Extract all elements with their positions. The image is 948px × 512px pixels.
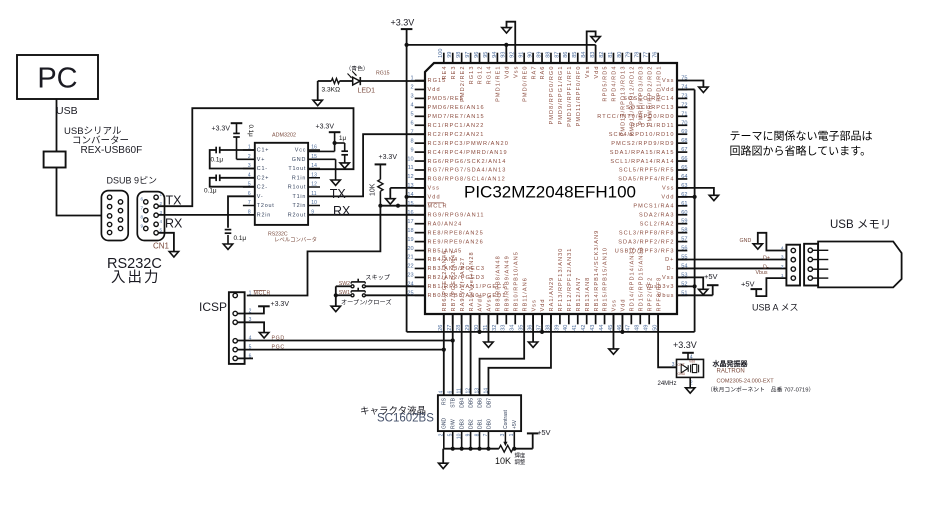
label open/close [341,299,392,307]
IC U1 top pins 76-100 [438,48,662,136]
connector USB memory plug [804,244,828,286]
label PGC [272,344,285,350]
svg-text:69: 69 [681,129,687,135]
svg-text:RG14: RG14 [487,66,493,85]
junction (pin52 Vusb3v3) [693,284,697,288]
svg-text:RG12: RG12 [478,66,484,85]
svg-text:RPD4/RD4: RPD4/RD4 [612,66,618,102]
potentiometer VR1 10K [495,431,513,466]
oscillator X1 24MHz module [677,359,704,377]
svg-text:SDA5/RPF4/RF4: SDA5/RPF4/RF4 [618,177,674,183]
ground (pin92 Vss) [502,28,511,33]
wire chip pin52 to rail [677,285,695,287]
svg-text:PMD5/RE5: PMD5/RE5 [428,96,464,102]
svg-text:R1in: R1in [292,175,306,181]
svg-text:36: 36 [528,325,534,331]
svg-text:67: 67 [681,147,687,153]
svg-text:70: 70 [681,120,687,126]
svg-text:RG13: RG13 [469,66,475,85]
svg-text:DB6: DB6 [477,398,483,408]
switch SW1 [339,288,366,297]
wire top pin84 Vss to ground [587,31,596,63]
svg-text:DB0: DB0 [486,419,492,429]
wire LCD ground bus [444,431,533,449]
svg-text:43: 43 [590,325,596,331]
power +3.3V (ADM V+) [212,123,243,132]
wire PIC RX (ADM R2out pin9 to chip pin16) [308,214,425,216]
svg-text:PMD8/RPG0/RG0: PMD8/RPG0/RG0 [549,66,555,125]
svg-text:PMD11/RPF0/RF0: PMD11/RPF0/RF0 [576,66,582,127]
svg-text:D+: D+ [763,255,770,261]
label osc pin2 [690,380,693,386]
svg-text:DB4: DB4 [459,398,465,408]
wire USB connector pin1 to +5V [756,278,786,296]
svg-text:Vdd: Vdd [540,298,546,311]
svg-text:52: 52 [681,281,687,287]
svg-text:33: 33 [501,325,507,331]
svg-text:USB: USB [56,105,78,117]
svg-text:78: 78 [635,52,641,58]
wire pin37 Vdd stub [541,314,543,332]
svg-text:85: 85 [572,52,578,58]
svg-text:V+: V+ [257,157,265,163]
svg-text:RB14/RPB14/SCK3/AN9: RB14/RPB14/SCK3/AN9 [594,230,600,312]
svg-text:R1out: R1out [288,185,306,191]
svg-text:+3.3V: +3.3V [271,301,290,308]
svg-text:29: 29 [465,325,471,331]
svg-text:PMD13/RPD13/RD13: PMD13/RPD13/RD13 [621,66,627,137]
svg-text:RF13/RPF13/AN30: RF13/RPF13/AN30 [558,248,564,312]
svg-text:40: 40 [563,325,569,331]
svg-text:RB7/PGED2/AN47: RB7/PGED2/AN47 [451,250,457,312]
wire ADM pin1-pin3 loop [210,150,255,169]
svg-text:RTCC/INT0/RPD0/RD0: RTCC/INT0/RPD0/RD0 [597,114,674,120]
ground (pin31 AVss) [484,342,493,347]
label osc pin3 [672,362,675,368]
svg-text:65: 65 [681,165,687,171]
svg-text:58: 58 [681,228,687,234]
label PGD [272,335,285,341]
svg-text:RG6/RPG6/SCK2/AN14: RG6/RPG6/SCK2/AN14 [428,159,507,165]
svg-text:RS: RS [442,397,448,405]
wire SW2 to chip pin24 [336,285,425,287]
svg-text:14: 14 [311,163,317,169]
svg-text:Vss: Vss [662,275,674,281]
svg-text:86: 86 [563,52,569,58]
svg-text:PIC32MZ2048EFH100: PIC32MZ2048EFH100 [464,183,636,202]
label akizuki component [707,386,814,394]
svg-text:79: 79 [626,52,632,58]
svg-text:GND: GND [292,157,306,163]
svg-text:74: 74 [681,84,687,90]
power +3.3V (main rail) [391,17,415,45]
svg-text:23: 23 [407,273,413,279]
DSUB 9-pin female connector CN1 [137,192,164,241]
DSUB 9-pin male connector (PC side) [101,191,128,241]
svg-text:Vss: Vss [513,66,519,78]
junction (rail top) [405,43,409,47]
svg-text:55: 55 [681,255,687,261]
svg-text:1: 1 [160,192,163,197]
svg-text:50: 50 [653,325,659,331]
wire chip pin26 to LCD RS [443,314,445,395]
svg-text:6: 6 [410,120,413,126]
svg-text:GND: GND [740,238,752,244]
wire pin75 Vss to ground [677,81,703,88]
svg-text:水晶発振器: 水晶発振器 [712,359,749,368]
svg-text:DB2: DB2 [468,419,474,429]
svg-text:10: 10 [311,200,317,206]
svg-text:R2out: R2out [288,212,306,218]
svg-text:42: 42 [581,325,587,331]
svg-text:48: 48 [635,325,641,331]
svg-text:OUT: OUT [678,363,685,367]
svg-text:56: 56 [681,246,687,252]
svg-text:V-: V- [257,194,264,200]
svg-text:RG15: RG15 [376,71,390,77]
junction (MCLR node) [378,204,382,208]
wire LED net [318,80,425,82]
svg-text:0.1μ: 0.1μ [204,187,217,194]
svg-text:スキップ: スキップ [365,275,391,282]
svg-text:2: 2 [410,85,413,91]
svg-text:PMD9/RPG1/RG1: PMD9/RPG1/RG1 [558,66,564,125]
svg-text:73: 73 [681,93,687,99]
svg-text:DB7: DB7 [486,398,492,408]
svg-text:テーマに関係ない電子部品は: テーマに関係ない電子部品は [730,130,873,143]
svg-text:2: 2 [781,264,784,270]
svg-text:Vdd: Vdd [661,87,674,93]
svg-text:1: 1 [249,290,252,296]
label MCLR [254,290,271,296]
wire PGC (ICSP pin5 to chip pin26 column) [237,349,443,351]
svg-text:SCL1/RPA14/RA14: SCL1/RPA14/RA14 [610,159,674,165]
svg-text:13: 13 [474,388,480,394]
power +5V (pin51 Vbus) [704,272,719,295]
wire ICSP pin2 to +3.3V [237,306,264,313]
svg-text:GND: GND [442,418,448,430]
wire chip pin38 to LCD DB7 [488,314,551,395]
wire MCLR to ICSP pin1 [247,206,381,296]
svg-text:32: 32 [492,325,498,331]
label TX (near ADM) [330,187,347,201]
label TX (near DSUB) [166,194,183,208]
svg-text:39: 39 [554,325,560,331]
wire switch common to ground [335,286,337,306]
capacitor C1 0.1u [211,147,224,164]
svg-text:25: 25 [407,291,413,297]
wire ADM V- pin6 to cap [228,196,255,227]
svg-text:RX: RX [333,204,351,218]
ground (LCD) [439,463,448,468]
svg-text:MCLR: MCLR [254,290,271,296]
svg-text:T1out: T1out [288,166,306,172]
ground (oscillator) [686,388,695,393]
svg-text:レベルコンバータ: レベルコンバータ [274,235,317,243]
wire oscillator GND [689,377,691,387]
svg-text:PMRD/RPD3/RD3: PMRD/RPD3/RD3 [638,66,644,125]
ground (pin45 Vss) [609,349,618,354]
svg-text:Vcc: Vcc [295,148,306,154]
svg-text:77: 77 [644,52,650,58]
wire pin63 Vss to ground [677,188,714,195]
wire chip pin54 D- to USB connector [677,267,786,269]
connector ICSP 6-pin [229,290,252,364]
svg-text:13: 13 [311,172,317,178]
svg-text:RC2/RPC2/AN21: RC2/RPC2/AN21 [428,132,485,138]
svg-text:SCL3/RPF8/RF8: SCL3/RPF8/RF8 [619,230,675,236]
label RS232C level converter [268,232,317,244]
svg-text:4: 4 [781,246,784,252]
power +3.3V (oscillator) [673,340,697,359]
ground (switch common) [331,306,340,311]
svg-text:3.3KΩ: 3.3KΩ [322,87,341,94]
ground (LED) [313,100,322,105]
label RX (near DSUB) [165,217,183,231]
svg-text:+3.3V: +3.3V [673,340,697,350]
wire chip pin29 to LCD DB5 [470,314,472,395]
svg-text:+5V: +5V [704,272,718,281]
svg-text:9: 9 [140,223,143,228]
svg-text:97: 97 [465,52,471,58]
svg-text:87: 87 [554,52,560,58]
svg-text:10K: 10K [495,456,511,466]
svg-text:Vss: Vss [585,66,591,78]
svg-text:USB メモリ: USB メモリ [830,219,891,231]
svg-text:8: 8 [140,215,143,220]
wire pin51 Vbus [677,294,713,296]
wire ADM pin4-pin5 loop [210,178,255,187]
wire ADM Vcc net [308,132,345,151]
wire PGD (ICSP pin4 to chip pin27 column) [237,340,452,342]
capacitor C2 0.1u [204,175,220,195]
svg-text:57: 57 [681,237,687,243]
svg-text:9: 9 [410,147,413,153]
svg-text:89: 89 [536,52,542,58]
svg-text:RG8/RPG8/SCL4/AN12: RG8/RPG8/SCL4/AN12 [428,177,506,183]
svg-text:+3.3V: +3.3V [391,17,415,27]
wire PC to USB plug [56,99,58,152]
svg-text:1μ: 1μ [339,135,346,142]
svg-text:46: 46 [617,325,623,331]
junction (top rail pin93) [504,43,508,47]
svg-text:C2+: C2+ [257,175,269,181]
svg-text:10: 10 [407,156,413,162]
svg-text:REX-USB60F: REX-USB60F [81,145,143,156]
capacitor C3 0.1u (V+) [233,123,255,159]
label skip (sukippu) [365,275,391,282]
svg-text:18: 18 [407,228,413,234]
label RS232C [107,256,162,272]
svg-text:7: 7 [248,200,251,206]
wire chip pin27 to LCD STB [452,314,454,395]
junction (MCLR node 2) [396,204,400,208]
svg-text:5: 5 [160,228,163,233]
svg-text:24MHz: 24MHz [658,381,677,387]
power +5V (USB memory) [741,280,762,290]
svg-text:RA7: RA7 [531,66,537,80]
svg-text:63: 63 [681,183,687,189]
label I/O (nyushutsuryoku) [111,269,161,286]
svg-text:5: 5 [410,112,413,118]
svg-text:TX: TX [166,194,183,208]
label GND (USB) [740,238,752,244]
svg-text:（秋月コンポーネント 品番 707-0719）: （秋月コンポーネント 品番 707-0719） [707,386,814,394]
svg-text:11: 11 [456,388,462,393]
junction (pin14 Vdd) [405,195,409,199]
svg-text:PMWR/RPD2/RD2: PMWR/RPD2/RD2 [647,66,653,127]
wire chip pin13 Vss to ground [390,188,425,199]
label RX (near ADM) [333,204,351,218]
svg-text:84: 84 [581,52,587,58]
svg-text:15: 15 [407,201,413,207]
wire +3.3V top rail [407,45,596,63]
svg-text:TX: TX [330,187,347,201]
svg-text:RA1/AN29: RA1/AN29 [549,277,555,312]
switch SW2 [339,279,366,288]
ground (ICSP pin3) [259,333,268,338]
svg-text:T2out: T2out [257,203,275,209]
label CN1 [153,241,170,250]
svg-text:DSUB 9ピン: DSUB 9ピン [107,176,158,186]
wire pin53 Vss to ground [677,277,703,289]
svg-text:COM2305-24.000-EXT: COM2305-24.000-EXT [717,379,775,385]
junction (pin30 AVdd) [477,330,481,334]
svg-text:Vdd: Vdd [594,66,600,79]
svg-text:3: 3 [781,255,784,261]
wire chip pin14 Vdd to rail [407,196,425,198]
svg-text:+3.3V: +3.3V [379,154,398,161]
svg-text:47: 47 [626,325,632,331]
ground (ADM pin15) [331,180,340,185]
svg-text:28: 28 [456,325,462,331]
svg-text:72: 72 [681,102,687,108]
junction (pin62 Vdd) [693,195,697,199]
svg-text:RA6: RA6 [540,66,546,80]
svg-text:12: 12 [311,182,317,188]
label character LCD [360,406,426,417]
svg-text:RB0/RPB0/AN0/PGED1: RB0/RPB0/AN0/PGED1 [428,293,507,299]
label USB [56,105,78,117]
ground (C4) [223,244,232,249]
svg-text:Vss: Vss [428,186,440,192]
resistor R1 3.3Kohm [322,78,341,93]
svg-text:RB9/RPB9/AN49: RB9/RPB9/AN49 [505,255,511,311]
wire SW1 to chip pin25 [336,294,425,296]
svg-text:0.1μ: 0.1μ [247,125,254,138]
svg-text:21: 21 [407,255,413,261]
IC U1 right pins 51-75 [597,76,687,300]
svg-text:STB: STB [451,397,457,407]
wire LCD ground stem [442,449,444,464]
wire ICSP pin6 stub [237,357,253,359]
label 24MHz [658,381,677,387]
svg-text:60: 60 [681,210,687,216]
svg-text:MCLR: MCLR [428,204,448,210]
IC U1 left pins 1-25 [407,76,509,299]
svg-text:1: 1 [781,273,784,279]
IC U1 PIC32MZ2048EFH100 body [425,63,677,314]
label LED1 [358,88,376,95]
svg-text:輝度: 輝度 [515,452,526,460]
wire MCLR net to chip pin15 [380,205,425,207]
svg-text:SCK4/RPD10/RD10: SCK4/RPD10/RD10 [609,132,675,138]
svg-text:7: 7 [410,129,413,135]
svg-text:LED1: LED1 [358,88,376,95]
junction (PGD) [451,338,455,342]
label USB serial converter [64,126,142,156]
wire chip pin55 D+ to USB connector [677,259,786,261]
svg-text:オープン/クローズ: オープン/クローズ [341,299,392,307]
label Vbus [756,270,768,276]
ground (pin36 Vss) [528,342,537,347]
wire pin30 AVdd stub [479,314,481,332]
wire ICSP pin3 to ground [237,322,264,332]
svg-text:71: 71 [681,111,687,117]
svg-text:30: 30 [474,325,480,331]
svg-text:RD14/RPD14/AN32: RD14/RPD14/AN32 [630,246,636,311]
svg-text:94: 94 [492,52,498,58]
svg-text:+3.3V: +3.3V [316,124,335,131]
wire DSUB CN1 pin5 to ground [158,233,174,252]
label crystal oscillator [712,359,749,368]
wire pin46 Vdd stub [621,314,623,332]
wire USB plug to DSUB [57,168,102,216]
label USB memory [830,219,891,231]
label D+ [763,255,770,261]
ground (pin84 Vss) [591,37,600,42]
svg-text:100: 100 [438,48,444,57]
svg-text:62: 62 [681,192,687,198]
wire LED net corner to ground [317,81,319,100]
svg-text:T2in: T2in [293,203,307,209]
wire +3.3V left rail [406,45,408,332]
svg-text:80: 80 [617,52,623,58]
power +5V (LCD) [527,428,551,449]
svg-text:16: 16 [407,210,413,216]
svg-text:4: 4 [439,391,445,394]
svg-text:Vss: Vss [662,186,674,192]
label COM2305 [717,379,775,385]
ground (USB pin4) [753,244,762,249]
svg-text:12: 12 [465,388,471,394]
svg-text:92: 92 [510,52,516,58]
wire top pin92 Vss to ground [507,22,516,63]
svg-text:PGD: PGD [272,335,285,341]
svg-text:4: 4 [160,219,163,224]
svg-text:95: 95 [483,52,489,58]
ground (pin75 Vss) [699,87,708,92]
label D- [763,265,769,271]
LED LED1 (blue) [348,71,361,85]
svg-text:RC1/RPC1/AN22: RC1/RPC1/AN22 [428,123,485,129]
svg-text:83: 83 [590,52,596,58]
svg-text:61: 61 [681,201,687,207]
svg-text:51: 51 [681,290,687,296]
ground (pin53 Vss) [699,289,708,294]
wire top Vdd pin93 stub to rail [505,45,507,63]
svg-text:38: 38 [545,325,551,331]
svg-text:回路図から省略しています。: 回路図から省略しています。 [730,144,872,158]
svg-text:99: 99 [447,52,453,58]
svg-text:R2in: R2in [257,212,271,218]
svg-text:RA9/Vref-/AN27: RA9/Vref-/AN27 [460,257,466,312]
note about omitted components [730,130,873,158]
svg-text:C1+: C1+ [257,148,269,154]
IC U1 bottom pins 26-50 [438,230,662,331]
svg-text:96: 96 [474,52,480,58]
svg-text:C2-: C2- [257,185,268,191]
